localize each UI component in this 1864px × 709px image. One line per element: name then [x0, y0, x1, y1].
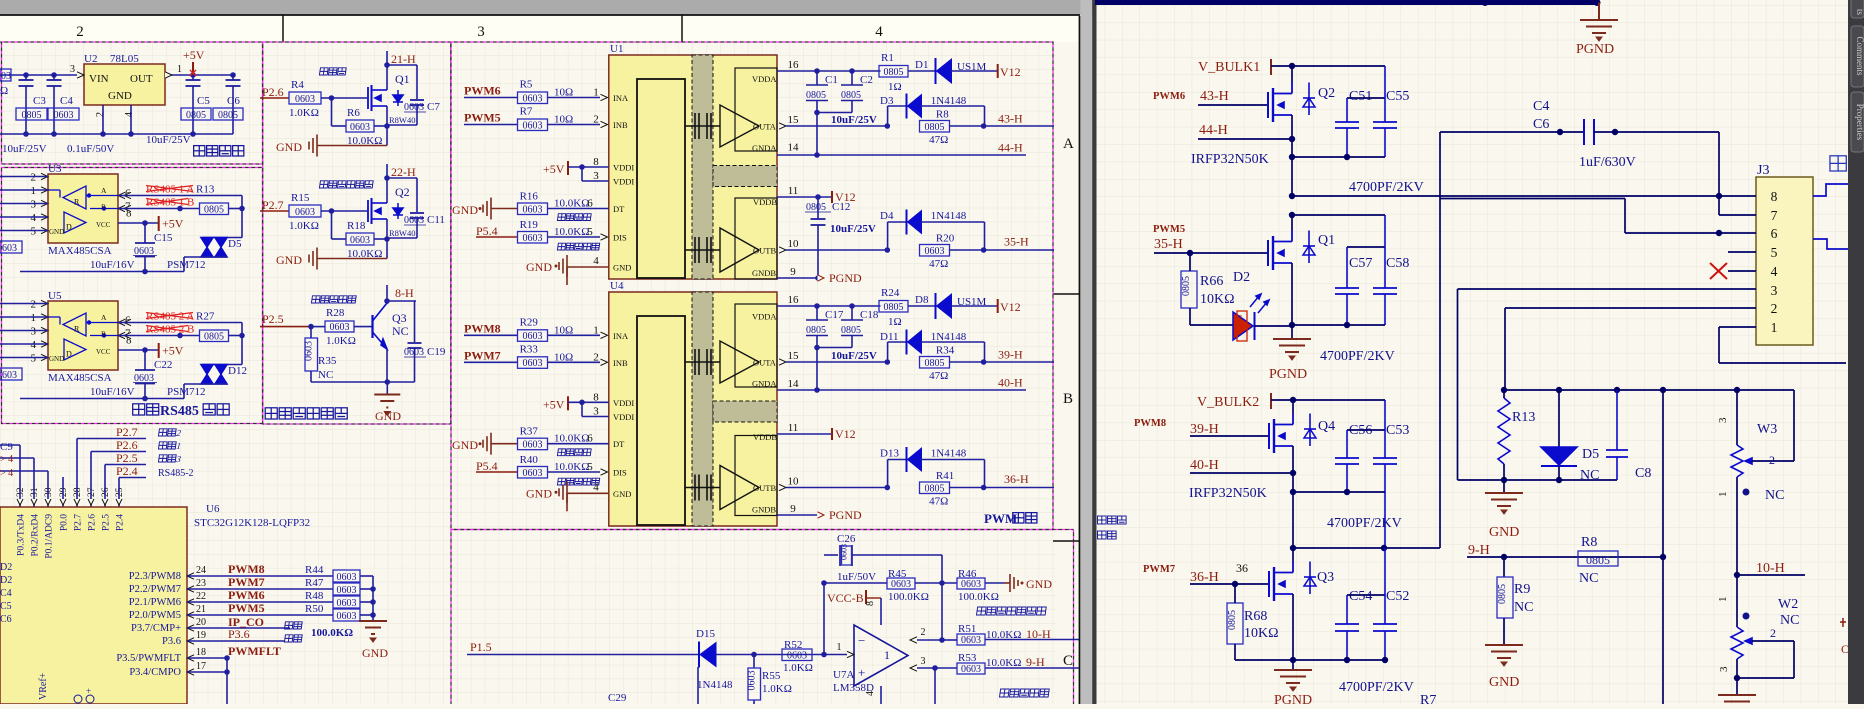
ground GND: [1485, 645, 1523, 690]
net label 39-H: [998, 348, 1023, 362]
wire: [777, 433, 832, 435]
svg-text:5: 5: [587, 461, 593, 473]
svg-text:1N4148: 1N4148: [697, 679, 733, 691]
junction: [142, 347, 148, 353]
wire: [386, 164, 388, 203]
svg-text:0805: 0805: [884, 67, 904, 78]
svg-text:GND: GND: [375, 409, 401, 423]
svg-text:−: −: [858, 633, 865, 648]
pin 10: [788, 238, 800, 250]
junction: [384, 62, 390, 68]
svg-text:R15: R15: [291, 192, 310, 204]
region box RS485: [2, 168, 263, 424]
svg-text:D5: D5: [1582, 447, 1599, 462]
svg-text:PWM7: PWM7: [228, 575, 265, 589]
svg-text:C5: C5: [197, 95, 210, 107]
value 100.0KΩ: [311, 627, 353, 639]
svg-text:V_BULK1: V_BULK1: [1198, 60, 1260, 75]
ground PGND: [1576, 3, 1618, 58]
svg-text:C3: C3: [33, 95, 46, 107]
svg-text:PWM5: PWM5: [1153, 224, 1185, 235]
capacitor C26: [824, 533, 942, 583]
svg-text:VDDI: VDDI: [613, 177, 634, 187]
wire: [548, 361, 601, 363]
svg-text:GND: GND: [49, 228, 64, 236]
svg-text:10uF/16V: 10uF/16V: [90, 386, 135, 398]
svg-text:PWM8: PWM8: [228, 562, 265, 576]
wire: [187, 614, 333, 616]
svg-text:100.0KΩ: 100.0KΩ: [888, 591, 929, 603]
svg-text:P2.6: P2.6: [262, 85, 284, 99]
connector J3: [1756, 163, 1813, 345]
svg-text:10KΩ: 10KΩ: [1244, 626, 1279, 641]
wire: [311, 326, 373, 328]
svg-text:R51: R51: [958, 623, 976, 635]
value labels R45: [888, 568, 907, 580]
resistor R34: [920, 345, 955, 383]
svg-text:C4: C4: [0, 588, 12, 599]
svg-text:32: 32: [16, 487, 26, 497]
svg-text:R13: R13: [196, 184, 215, 196]
svg-text:0603: 0603: [961, 635, 981, 646]
svg-text:R5: R5: [520, 79, 533, 91]
resistor R16: [518, 191, 590, 216]
svg-text:0805: 0805: [925, 483, 945, 494]
svg-text:R29: R29: [520, 316, 539, 328]
wire stub right lower: [1813, 239, 1849, 249]
svg-text:1.0KΩ: 1.0KΩ: [289, 220, 319, 232]
svg-text:0805: 0805: [1586, 553, 1610, 567]
wire: [942, 639, 1079, 642]
diode D5: [1541, 390, 1599, 483]
svg-text:2: 2: [1770, 626, 1776, 640]
value 4700PF/2KV: [1339, 680, 1414, 695]
pin number 8: [865, 601, 876, 606]
svg-text:29: 29: [59, 487, 69, 497]
wire: [321, 97, 368, 99]
resistor R27: [200, 330, 229, 342]
svg-text:10uF/25V: 10uF/25V: [831, 350, 877, 362]
svg-text:C7: C7: [427, 101, 440, 113]
net label PWM7: [228, 575, 265, 589]
svg-text:3: 3: [921, 656, 926, 667]
svg-text:R1: R1: [881, 52, 894, 64]
pin label INA: [613, 93, 629, 103]
svg-text:1N4148: 1N4148: [931, 210, 967, 222]
resistor R19: [518, 219, 590, 244]
svg-text:1N4148: 1N4148: [931, 95, 967, 107]
svg-text:C6: C6: [0, 614, 12, 625]
svg-text:PGND: PGND: [1576, 42, 1614, 57]
power port VCC-B: [827, 590, 881, 605]
svg-text:C: C: [1841, 642, 1849, 656]
pin number: [593, 324, 599, 336]
resistor R66: [1181, 253, 1235, 325]
svg-text:2: 2: [95, 112, 106, 117]
svg-text:6: 6: [587, 433, 593, 445]
wire: [880, 686, 882, 704]
value cut: [0, 85, 8, 97]
value 10uF/16V: [90, 259, 135, 271]
net label 35-H: [1154, 237, 1268, 253]
svg-text:78L05: 78L05: [110, 53, 139, 65]
capacitor C58: [1373, 215, 1409, 325]
svg-text:4700PF/2KV: 4700PF/2KV: [1327, 516, 1402, 531]
pin number 3: [593, 406, 599, 418]
svg-text:2: 2: [1771, 301, 1778, 316]
resistor R9: [1497, 557, 1533, 645]
svg-text:IRFP32N50K: IRFP32N50K: [1191, 152, 1269, 167]
svg-text:43-H: 43-H: [998, 112, 1023, 126]
svg-text:GNDA: GNDA: [752, 379, 777, 389]
svg-text:GNDB: GNDB: [752, 505, 776, 515]
svg-text:J3: J3: [1757, 163, 1769, 178]
pin number 5: [587, 226, 593, 238]
pin arrow: [601, 359, 608, 365]
wire: [1292, 65, 1385, 67]
svg-text:10: 10: [788, 238, 800, 250]
capacitor C3: [16, 75, 47, 134]
svg-text:0603: 0603: [523, 358, 543, 369]
pin 15: [788, 114, 800, 126]
label 高电平禁止: [557, 243, 599, 250]
svg-text:C4: C4: [60, 95, 73, 107]
svg-text:INA: INA: [613, 93, 629, 103]
svg-text:47Ω: 47Ω: [929, 134, 948, 146]
diode D13: [880, 447, 985, 488]
svg-text:R48: R48: [305, 590, 324, 602]
pin number 5: [587, 461, 593, 473]
net label P5.4: [476, 459, 518, 473]
pin label VDDI: [613, 163, 634, 173]
resistor R6: [346, 107, 382, 147]
wire: [1293, 399, 1385, 401]
svg-text:C8: C8: [1635, 466, 1651, 481]
svg-text:PGND: PGND: [829, 271, 862, 285]
svg-text:2: 2: [593, 114, 599, 126]
svg-text:0603: 0603: [337, 585, 357, 596]
svg-text:VDDI: VDDI: [613, 412, 634, 422]
svg-text:40-H: 40-H: [1190, 458, 1219, 473]
junction: [329, 208, 335, 214]
wire pin1: [1719, 327, 1846, 363]
net label IP_CO: [228, 615, 264, 629]
junction: [142, 220, 148, 226]
svg-text:D12: D12: [228, 365, 247, 377]
svg-text:P1.5: P1.5: [470, 640, 492, 654]
svg-text:C54: C54: [1349, 589, 1372, 604]
wire B: [118, 335, 242, 337]
section title 两路RS485通讯: [133, 404, 229, 419]
junction: [1501, 554, 1666, 560]
svg-text:0603: 0603: [840, 544, 849, 560]
resistor R20: [920, 233, 955, 271]
svg-text:0603: 0603: [337, 611, 357, 622]
resistor R52: [782, 639, 813, 674]
svg-text:C15: C15: [154, 232, 173, 244]
svg-text:8-H: 8-H: [395, 286, 414, 300]
wire: [1292, 324, 1385, 326]
svg-text:2: 2: [76, 24, 84, 40]
svg-text:V_BULK2: V_BULK2: [1197, 395, 1259, 410]
transistor Q1: [1268, 231, 1335, 271]
power port V12: [832, 190, 856, 204]
pin number 6: [587, 198, 593, 210]
net label 40-H: [1190, 458, 1293, 473]
diode D4: [880, 210, 985, 251]
pin label DT: [613, 204, 625, 214]
svg-text:47Ω: 47Ω: [929, 496, 948, 508]
svg-text:GNDA: GNDA: [752, 143, 777, 153]
svg-text:R16: R16: [520, 191, 539, 203]
junction: [1187, 250, 1193, 256]
wire pin6: [1440, 199, 1756, 234]
svg-text:1: 1: [31, 312, 37, 324]
svg-text:R18: R18: [347, 220, 366, 232]
svg-text:R35: R35: [318, 355, 337, 367]
capacitor C55: [1373, 66, 1409, 157]
svg-text:V12: V12: [1000, 65, 1021, 79]
svg-text:3: 3: [31, 199, 37, 211]
svg-text:R55: R55: [762, 670, 781, 682]
svg-text:GND: GND: [613, 489, 631, 499]
svg-text:D: D: [66, 223, 72, 232]
wire: [950, 125, 1055, 127]
svg-text:P2.3/PWM8: P2.3/PWM8: [129, 571, 181, 582]
svg-text:R: R: [74, 198, 80, 207]
pin label VDDI: [613, 398, 634, 408]
wire A: [118, 196, 242, 209]
net label 35-H: [1004, 235, 1029, 249]
pin 32: [16, 482, 26, 507]
svg-text:R66: R66: [1200, 274, 1223, 289]
resistor R68: [1227, 584, 1293, 660]
wire: [374, 125, 387, 127]
svg-text:PWM8: PWM8: [464, 321, 501, 335]
svg-text:P5.4: P5.4: [476, 224, 498, 238]
junction: [815, 194, 821, 200]
wire: [1255, 325, 1293, 327]
svg-text:47Ω: 47Ω: [929, 370, 948, 382]
svg-text:R44: R44: [305, 564, 324, 576]
wire: [786, 125, 887, 127]
net label P2.7: [77, 425, 146, 482]
svg-text:0805: 0805: [204, 204, 224, 215]
svg-text:RS485 1 A: RS485 1 A: [146, 184, 194, 196]
resistor cut 0603: [0, 241, 22, 254]
svg-text:R9: R9: [1514, 582, 1530, 597]
ground PGND: [1269, 325, 1311, 382]
pin label P2.5: [102, 514, 112, 531]
pin 15: [788, 350, 800, 362]
junction: [885, 485, 987, 491]
pin label P0.3/TxD4: [17, 514, 27, 556]
svg-text:GND: GND: [1489, 675, 1519, 690]
net label RS485_1_B: [146, 197, 194, 209]
capacitor C52: [1373, 548, 1409, 660]
svg-text:GND: GND: [49, 355, 64, 363]
ground GND: [1485, 480, 1523, 540]
svg-text:23: 23: [196, 578, 206, 589]
transistor Q4: [1269, 414, 1335, 454]
pin number: [593, 351, 599, 363]
power port +5V: [183, 48, 205, 76]
value 10uF/25V: [831, 350, 877, 362]
svg-text:> 4: > 4: [0, 454, 13, 465]
wire: [908, 70, 936, 72]
svg-text:PGND: PGND: [1274, 693, 1312, 704]
ground: [526, 255, 609, 285]
pin arrow: [601, 332, 608, 338]
svg-text:R: R: [74, 325, 80, 334]
pin 11: [788, 422, 799, 434]
svg-text:22: 22: [196, 591, 206, 602]
resistor R18: [346, 220, 382, 260]
svg-text:U5: U5: [48, 290, 62, 302]
svg-text:Q2: Q2: [1318, 86, 1335, 101]
wire: [548, 443, 609, 445]
svg-text:36: 36: [1236, 561, 1248, 575]
svg-text:0603: 0603: [523, 93, 543, 104]
capacitor C56: [1335, 423, 1385, 492]
net label 8-H: [387, 286, 416, 301]
svg-text:C6: C6: [227, 95, 240, 107]
svg-text:2: 2: [593, 351, 599, 363]
svg-text:P0.3/TxD4: P0.3/TxD4: [17, 514, 27, 556]
net label PWM5: [464, 111, 517, 125]
svg-text:1: 1: [1717, 597, 1729, 603]
pin arrow OUTA: [779, 123, 786, 129]
wire: [187, 640, 285, 642]
wire: [0, 133, 233, 135]
svg-text:8: 8: [593, 156, 599, 168]
pin number 3: [593, 170, 599, 182]
net label P3.6: [228, 627, 250, 641]
pin number 4: [865, 691, 876, 696]
svg-text:5: 5: [31, 353, 37, 365]
output block A: [720, 304, 777, 389]
junction: [1289, 63, 1295, 69]
label 死区控制: [557, 214, 591, 221]
svg-text:D15: D15: [696, 628, 715, 640]
svg-text:+: +: [86, 686, 91, 696]
svg-text:Q2: Q2: [395, 185, 410, 199]
wire: [985, 582, 1004, 584]
svg-text:4: 4: [31, 212, 37, 224]
svg-text:10uF/25V: 10uF/25V: [831, 114, 877, 126]
svg-text:2: 2: [921, 627, 926, 638]
label 控制3: [158, 454, 182, 464]
junction: [814, 110, 820, 158]
svg-text:1uF/50V: 1uF/50V: [837, 571, 876, 583]
svg-text:0603: 0603: [523, 120, 543, 131]
wire: [908, 305, 936, 307]
svg-text:OUTB: OUTB: [753, 483, 776, 493]
svg-text:C1: C1: [825, 74, 838, 86]
svg-text:Ω: Ω: [0, 85, 8, 97]
svg-text:C22: C22: [154, 359, 172, 371]
power port +5V: [159, 343, 184, 358]
junction: [579, 164, 585, 170]
net label P2.6: [91, 438, 146, 482]
svg-text:10KΩ: 10KΩ: [1200, 292, 1235, 307]
resistor R44: [305, 564, 360, 583]
pin 17: [129, 661, 206, 678]
pin label INA: [613, 331, 629, 341]
svg-text:R20: R20: [936, 233, 955, 245]
wire: [950, 249, 1055, 251]
wire: [880, 598, 882, 625]
svg-text:1: 1: [1771, 320, 1778, 335]
wire: [934, 668, 936, 704]
capacitor C54: [1335, 589, 1385, 660]
wire: [386, 51, 388, 90]
net label cut C6: [0, 614, 12, 625]
svg-text:U4: U4: [610, 280, 624, 292]
svg-text:0603: 0603: [295, 207, 315, 218]
svg-text:R8: R8: [936, 109, 949, 121]
pin 25: [115, 482, 125, 507]
junction: [308, 324, 314, 330]
value 10uF/25V: [831, 114, 877, 126]
svg-text:C12: C12: [832, 201, 850, 213]
svg-text:DIS: DIS: [613, 468, 627, 478]
svg-text:Q3: Q3: [1317, 570, 1334, 585]
net label RS485_2_A: [146, 311, 215, 323]
svg-text:+5V: +5V: [162, 217, 184, 231]
pin arrow: [601, 121, 608, 127]
svg-text:R8: R8: [1581, 535, 1597, 550]
wire: [548, 97, 601, 99]
wire: [1293, 547, 1440, 549]
pin arrow: [910, 637, 917, 643]
svg-text:44-H: 44-H: [998, 141, 1023, 155]
svg-text:6: 6: [587, 198, 593, 210]
net label 9-H: [1026, 655, 1045, 669]
wire: [332, 211, 347, 239]
junction: [23, 131, 196, 137]
svg-text:10uF/25V: 10uF/25V: [2, 143, 47, 155]
diode D1: [915, 58, 987, 84]
svg-text:19: 19: [196, 630, 206, 641]
wire: [1291, 115, 1293, 198]
wire: [0, 445, 20, 482]
resistor R48: [305, 590, 360, 609]
svg-text:PWM6: PWM6: [464, 84, 501, 98]
net label cut C5: [0, 601, 12, 612]
svg-text:1N4148: 1N4148: [931, 331, 967, 343]
junction: [1289, 136, 1295, 142]
junction: [579, 400, 585, 406]
pin label DIS: [613, 468, 627, 478]
ground: [276, 248, 387, 270]
capacitor C12: [805, 197, 876, 278]
svg-text:NC: NC: [392, 324, 409, 338]
junction: [814, 68, 855, 74]
junction: [939, 637, 945, 643]
potentiometer W3: [1717, 390, 1794, 575]
isolation capacitor: [685, 475, 720, 501]
junction: [1290, 470, 1296, 476]
pin number 6: [587, 433, 593, 445]
resistor R51: [957, 623, 985, 646]
svg-text:R24: R24: [881, 287, 900, 299]
pin label GND: [613, 489, 631, 499]
pin number 8: [593, 391, 599, 403]
label 输出: [1830, 156, 1846, 171]
svg-text:P2.7: P2.7: [116, 425, 138, 439]
ruler number 3: [477, 24, 485, 40]
